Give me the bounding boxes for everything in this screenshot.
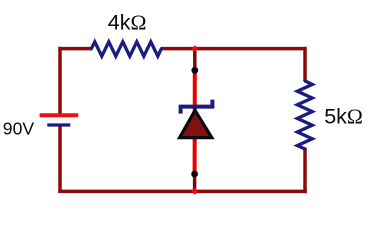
wire left lower (battery down to bottom corner) bbox=[58, 126, 62, 191]
svg-text:90V: 90V bbox=[3, 119, 35, 139]
junction marker diamond bottom bbox=[191, 188, 198, 195]
wire bottom bbox=[58, 190, 307, 194]
wire middle (bright red, through zener diode) bbox=[193, 70, 197, 174]
zener diode D1 cathode bar bbox=[181, 100, 213, 114]
wire right upper (top corner down to resistor R2) bbox=[303, 47, 307, 82]
label 5kΩ bbox=[324, 105, 363, 129]
node dot bottom junction bbox=[191, 171, 198, 178]
node dot top junction bbox=[191, 67, 198, 74]
battery V1 positive plate (red) bbox=[40, 113, 79, 117]
resistor R1 zigzag bbox=[91, 42, 161, 56]
wire left upper (top corner down to battery) bbox=[58, 47, 62, 114]
wire right lower (resistor R2 down to bottom corner) bbox=[303, 149, 307, 193]
zener diode D1 triangle bbox=[180, 110, 212, 137]
wire middle lower (node dot to bottom wire) bbox=[193, 174, 197, 191]
svg-text:4kΩ: 4kΩ bbox=[108, 11, 147, 35]
battery V1 negative plate (blue) bbox=[47, 123, 70, 126]
junction marker diamond top bbox=[192, 45, 199, 52]
svg-text:5kΩ: 5kΩ bbox=[324, 105, 363, 129]
resistor R2 zigzag bbox=[297, 81, 312, 149]
wire top (left corner to resistor R1) bbox=[60, 47, 92, 51]
label 90V bbox=[3, 119, 35, 139]
wire middle upper (top wire to node dot) bbox=[193, 49, 197, 71]
label 4kΩ bbox=[108, 11, 147, 35]
wire top (resistor R1 to right corner) bbox=[161, 47, 305, 51]
